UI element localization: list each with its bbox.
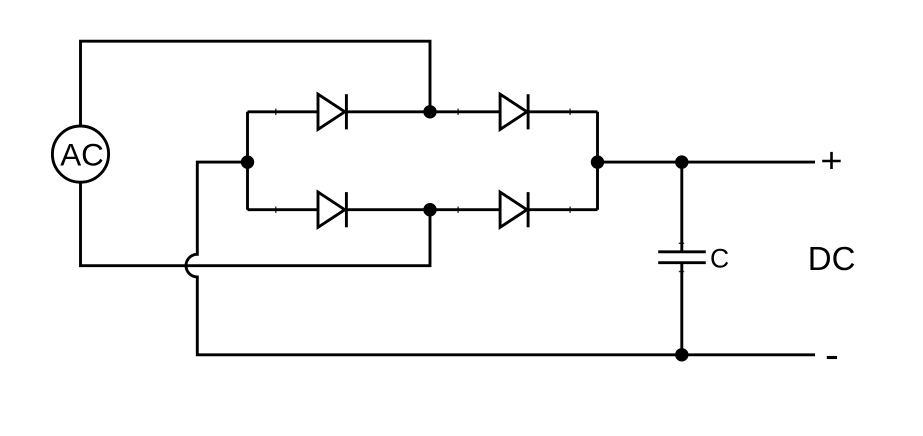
svg-text:AC: AC (60, 138, 104, 173)
svg-text:DC: DC (808, 240, 856, 277)
svg-text:C: C (710, 243, 729, 273)
